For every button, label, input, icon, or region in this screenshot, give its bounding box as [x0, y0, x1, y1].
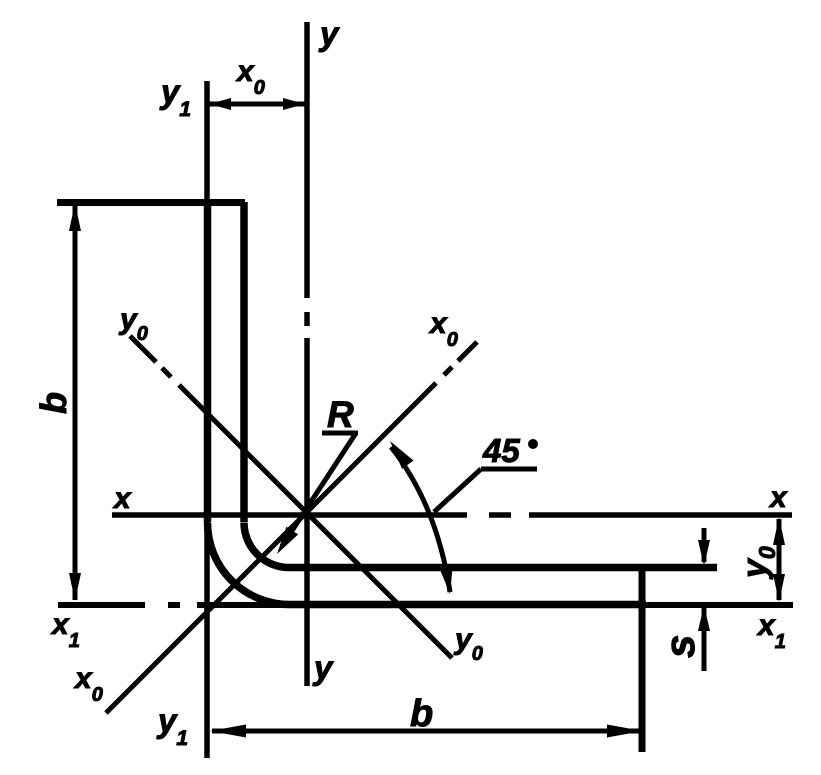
angle profile: top (inner) edge of horizontal leg (with extension to s/y0 dims): [289, 564, 717, 572]
angle profile: end edge of horizontal leg (with extension down to b dimension): [639, 564, 646, 752]
leader 45 degrees: [434, 469, 537, 512]
dimension x0 (top, between y1 and y axes): [209, 98, 305, 110]
x1 axis: [58, 602, 793, 608]
angle profile: outer corner radius: [208, 523, 290, 605]
dimension b (bottom, width of horizontal leg): [210, 725, 643, 738]
angle profile: inner (right) edge of vertical leg: [240, 202, 248, 522]
svg-text:b: b: [33, 392, 74, 414]
angle profile: inner fillet radius R: [244, 523, 289, 568]
y1 axis: [204, 81, 210, 758]
angle arc 45 degrees (from x0 axis down across x axis): [390, 441, 453, 594]
svg-text:s: s: [656, 635, 703, 658]
dimension s (thickness of horizontal leg): [698, 528, 710, 671]
dimension y0 (right, x axis to x1 axis): [773, 517, 785, 602]
svg-text:y: y: [312, 649, 334, 686]
svg-text:R: R: [327, 394, 354, 435]
svg-text:x: x: [768, 481, 788, 514]
y axis: [304, 22, 310, 686]
angle profile: outer (left) edge of vertical leg: [204, 199, 212, 522]
x axis: [112, 512, 792, 518]
leader R (inner radius callout): [277, 433, 358, 554]
x0 axis (diagonal, lower-left to upper-right): [106, 342, 477, 713]
svg-text:b: b: [410, 693, 433, 735]
svg-text:y: y: [318, 15, 340, 52]
y0 axis (diagonal, upper-left to lower-right): [130, 336, 452, 658]
dimension b (left, height of vertical leg): [69, 203, 81, 601]
svg-text:x: x: [112, 482, 132, 515]
angle profile: top edge of vertical leg (with extension line to b dimension): [57, 199, 245, 206]
svg-text:45: 45: [482, 432, 520, 469]
angle profile: bottom edge of horizontal leg: [289, 601, 646, 609]
